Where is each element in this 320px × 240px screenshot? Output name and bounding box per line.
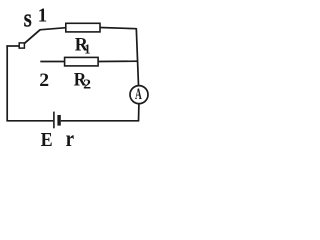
resistor R1 — [66, 23, 100, 32]
switch S pivot contact — [19, 43, 24, 48]
wire left vertical — [6, 45, 8, 121]
resistor R2 — [65, 57, 99, 66]
svg-text:r: r — [66, 125, 74, 151]
svg-text:1: 1 — [84, 41, 90, 57]
wire branch2 R2 to right vertical — [98, 60, 138, 62]
svg-text:2: 2 — [39, 70, 49, 90]
svg-text:S: S — [24, 11, 32, 31]
ammeter A: circle — [130, 86, 148, 104]
battery E r : long thin plate — [53, 112, 55, 129]
svg-text:1: 1 — [38, 5, 47, 27]
wire branch1 blade-junction to R1 — [40, 28, 66, 30]
switch S blade — [24, 30, 40, 44]
wire branch1 R1 to right corner — [100, 28, 137, 29]
wire bottom left — [6, 120, 53, 122]
wire branch2 open end to R2 — [40, 61, 64, 63]
svg-text:A: A — [135, 84, 142, 102]
battery E r : short thick plate — [57, 115, 60, 126]
wire top-left stub to switch — [6, 45, 19, 47]
svg-text:E: E — [41, 129, 53, 151]
wire right vertical lower — [138, 104, 140, 121]
wire right vertical upper — [136, 28, 138, 85]
svg-text:2: 2 — [83, 77, 91, 92]
wire bottom right — [61, 120, 139, 122]
